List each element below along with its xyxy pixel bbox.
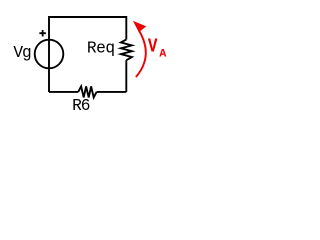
wire: left / top / upper-right segment	[49, 17, 126, 92]
wire: right lower	[125, 60, 127, 92]
svg-text:V: V	[148, 35, 158, 57]
wire: bottom	[49, 91, 126, 93]
svg-text:A: A	[159, 49, 166, 61]
resistor R6 zigzag	[78, 86, 96, 97]
svg-text:Vg: Vg	[13, 44, 31, 62]
arrow V_A head	[134, 22, 145, 32]
svg-text:Req: Req	[87, 40, 115, 58]
resistor Req zigzag	[121, 40, 132, 61]
svg-text:R6: R6	[72, 97, 90, 115]
plus sign	[39, 30, 46, 37]
arrow V_A arc	[136, 31, 146, 78]
voltage source Vg circle	[35, 40, 64, 69]
